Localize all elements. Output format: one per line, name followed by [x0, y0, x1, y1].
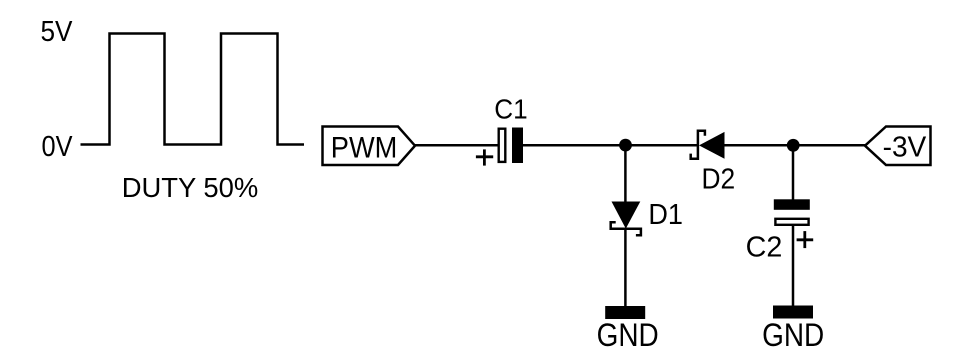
- net flag PWM: [323, 127, 416, 166]
- capacitor C2: [774, 199, 810, 225]
- wire node B down to C2: [792, 145, 795, 200]
- C1 polarity mark +: [476, 149, 493, 165]
- zener diode D1: [611, 202, 641, 236]
- svg-text:GND: GND: [597, 317, 659, 353]
- PWM waveform trace: [81, 34, 305, 145]
- wire C2 to ground: [792, 225, 795, 306]
- ground symbol (under D1): [605, 306, 645, 319]
- svg-text:C2: C2: [746, 231, 783, 263]
- node B junction: [787, 139, 800, 152]
- svg-text:DUTY 50%: DUTY 50%: [122, 172, 259, 203]
- capacitor C1: [499, 128, 523, 164]
- svg-text:0V: 0V: [42, 131, 73, 163]
- svg-text:5V: 5V: [41, 16, 73, 48]
- wire PWM to C1: [415, 144, 498, 147]
- svg-text:GND: GND: [762, 317, 824, 353]
- svg-text:-3V: -3V: [883, 131, 927, 163]
- wire D1 to ground: [624, 229, 627, 306]
- svg-text:D1: D1: [648, 199, 683, 231]
- net flag -3V: [865, 127, 931, 166]
- svg-text:PWM: PWM: [331, 131, 398, 164]
- svg-text:D2: D2: [702, 163, 736, 195]
- zener diode D2: [691, 131, 725, 159]
- wire D2 to node B: [725, 144, 866, 147]
- ground symbol (under C2): [773, 306, 813, 319]
- svg-text:C1: C1: [494, 93, 527, 124]
- node A junction: [619, 139, 632, 152]
- wire C1 to node A: [522, 144, 698, 147]
- wire node A down to D1: [624, 145, 627, 202]
- C2 polarity mark +: [797, 231, 814, 248]
